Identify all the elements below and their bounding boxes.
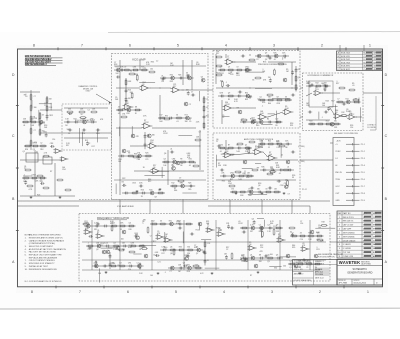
svg-text:R9: R9	[228, 99, 230, 101]
svg-text:P1-5: P1-5	[361, 172, 365, 174]
svg-text:CR12: CR12	[350, 114, 355, 116]
svg-text:6: 6	[339, 236, 340, 238]
svg-text:330: 330	[218, 165, 221, 167]
svg-text:2: 2	[339, 221, 340, 223]
svg-text:11: 11	[338, 256, 340, 258]
svg-text:R26: R26	[189, 158, 192, 160]
svg-text:CR8: CR8	[306, 105, 310, 107]
svg-text:R7: R7	[86, 229, 88, 231]
svg-text:R17: R17	[23, 181, 26, 183]
svg-text:R12: R12	[85, 140, 88, 142]
svg-text:330: 330	[34, 107, 37, 109]
svg-text:C2: C2	[222, 117, 224, 119]
svg-text:C9: C9	[199, 132, 201, 134]
svg-text:R35: R35	[222, 181, 225, 183]
svg-text:C2: C2	[156, 61, 158, 63]
svg-text:CR8: CR8	[259, 140, 262, 142]
svg-text:33: 33	[196, 246, 198, 248]
svg-text:R12: R12	[341, 112, 344, 114]
svg-text:REPLACE AND RECALIBRATE: REPLACE AND RECALIBRATE	[29, 256, 58, 259]
svg-text:C7: C7	[206, 99, 208, 101]
svg-text:CR8: CR8	[50, 143, 53, 145]
svg-text:33: 33	[160, 220, 162, 222]
svg-text:5: 5	[175, 290, 177, 294]
svg-text:UNLESS OTHERWISE SPECIFIED:: UNLESS OTHERWISE SPECIFIED:	[29, 235, 62, 237]
svg-text:C9: C9	[287, 193, 289, 195]
svg-text:C7: C7	[34, 96, 36, 98]
svg-text:CR1: CR1	[315, 89, 319, 91]
svg-text:R35: R35	[242, 261, 245, 263]
svg-text:RESISTORS ARE IN OHMS 1/4W 5%: RESISTORS ARE IN OHMS 1/4W 5%	[29, 236, 63, 239]
svg-text:R22: R22	[236, 73, 239, 75]
svg-text:P2-4: P2-4	[361, 165, 365, 167]
svg-text:R26: R26	[187, 271, 190, 273]
svg-text:Q3: Q3	[267, 261, 269, 263]
svg-text:8: 8	[339, 244, 340, 246]
svg-text:R17: R17	[66, 145, 69, 147]
svg-text:.XXX ± .005: .XXX ± .005	[294, 269, 303, 271]
svg-text:Q9: Q9	[242, 173, 244, 175]
svg-text:C7: C7	[207, 226, 209, 228]
svg-text:R26: R26	[273, 52, 276, 54]
svg-text:R7: R7	[256, 59, 258, 61]
svg-text:R44: R44	[174, 190, 177, 192]
svg-text:R17: R17	[216, 53, 219, 55]
svg-text:Q1: Q1	[196, 253, 198, 255]
svg-text:10.: 10.	[25, 269, 28, 271]
svg-text:R35: R35	[170, 74, 173, 76]
svg-text:R17: R17	[185, 114, 188, 116]
svg-text:.01: .01	[189, 165, 191, 167]
svg-text:330: 330	[334, 120, 337, 122]
svg-text:Q3: Q3	[113, 242, 115, 244]
svg-text:R17: R17	[259, 231, 262, 233]
svg-text:4FT-7WB: 4FT-7WB	[339, 283, 348, 285]
svg-text:R44: R44	[159, 121, 162, 123]
svg-text:CR8: CR8	[172, 158, 175, 160]
svg-text:Q9: Q9	[228, 92, 230, 94]
svg-text:CR8: CR8	[131, 242, 134, 244]
svg-text:R31: R31	[230, 179, 233, 181]
svg-text:XSTR 2N3904: XSTR 2N3904	[343, 233, 355, 235]
svg-text:R18: R18	[246, 177, 249, 179]
svg-text:ECN 2703: ECN 2703	[341, 62, 350, 64]
svg-text:Q3: Q3	[257, 99, 259, 101]
svg-text:R31: R31	[40, 181, 43, 183]
svg-text:Q9: Q9	[276, 96, 278, 98]
svg-text:.01: .01	[278, 173, 280, 175]
svg-text:100: 100	[318, 227, 321, 229]
svg-text:R22: R22	[255, 148, 258, 150]
svg-text:R44: R44	[248, 195, 251, 197]
svg-text:C2: C2	[158, 189, 160, 191]
svg-text:CR8: CR8	[219, 92, 222, 94]
svg-text:5: 5	[363, 236, 364, 238]
svg-text:3: 3	[273, 44, 275, 48]
svg-text:CLOSURE: CLOSURE	[367, 127, 376, 129]
svg-text:C14: C14	[350, 127, 353, 129]
svg-text:R40: R40	[149, 189, 152, 191]
svg-text:R18: R18	[40, 149, 43, 151]
svg-text:4: 4	[363, 244, 364, 246]
svg-text:ECN 2891: ECN 2891	[341, 66, 350, 68]
svg-text:Q3: Q3	[195, 264, 197, 266]
svg-text:Q9: Q9	[298, 77, 300, 79]
svg-text:C2: C2	[87, 110, 89, 112]
svg-text:1/0: 1/0	[374, 66, 377, 68]
svg-text:2: 2	[321, 44, 323, 48]
svg-text:MODEL NO: MODEL NO	[339, 280, 347, 282]
svg-text:5: 5	[177, 44, 179, 48]
svg-text:.1: .1	[262, 105, 264, 107]
svg-text:8: 8	[363, 221, 364, 223]
svg-text:Q6: Q6	[129, 222, 131, 224]
svg-text:CR12: CR12	[152, 241, 157, 243]
svg-text:Q3: Q3	[119, 262, 121, 264]
svg-text:R4: R4	[180, 165, 182, 167]
svg-text:R22: R22	[122, 178, 125, 180]
svg-text:FACTORY SET SELECTIONS: FACTORY SET SELECTIONS	[29, 251, 57, 254]
svg-text:R12: R12	[171, 182, 174, 184]
svg-text:C21: C21	[289, 260, 292, 262]
svg-text:R26: R26	[145, 152, 148, 154]
svg-text:CR4: CR4	[219, 144, 222, 146]
svg-text:.01: .01	[118, 106, 120, 108]
svg-text:R31: R31	[141, 66, 144, 68]
svg-text:100: 100	[269, 154, 272, 156]
svg-text:DIODE 1N4148: DIODE 1N4148	[343, 240, 355, 242]
svg-text:7: 7	[363, 233, 364, 235]
svg-text:P1-9: P1-9	[361, 200, 365, 202]
svg-text:5/8: 5/8	[374, 53, 377, 55]
svg-text:R26: R26	[242, 254, 245, 256]
svg-text:.1: .1	[282, 59, 283, 61]
svg-text:CR1: CR1	[276, 231, 279, 233]
svg-text:C14: C14	[245, 151, 248, 153]
svg-text:33: 33	[300, 232, 302, 234]
svg-text:WΛVETEK: WΛVETEK	[339, 260, 360, 265]
svg-text:330: 330	[257, 188, 260, 190]
svg-text:R4: R4	[130, 71, 132, 73]
svg-text:P1-1: P1-1	[361, 144, 365, 146]
svg-text:R17: R17	[250, 231, 253, 233]
svg-text:R22: R22	[74, 118, 77, 120]
svg-text:C7: C7	[191, 92, 193, 94]
svg-text:100: 100	[283, 265, 286, 267]
svg-text:OTHERWISE SPECIFIED: OTHERWISE SPECIFIED	[294, 263, 313, 265]
svg-text:CR12: CR12	[32, 174, 36, 176]
svg-text:Q1: Q1	[259, 96, 261, 98]
svg-text:CR8: CR8	[137, 159, 140, 161]
svg-text:P2-6: P2-6	[361, 179, 365, 181]
svg-text:C14: C14	[260, 247, 263, 249]
svg-text:C14: C14	[317, 239, 320, 241]
svg-text:ONLY: ONLY	[86, 91, 92, 93]
svg-text:R7: R7	[250, 275, 252, 277]
svg-text:ECN 2411: ECN 2411	[341, 56, 350, 58]
svg-text:R35: R35	[188, 189, 191, 191]
svg-text:R31: R31	[187, 264, 190, 266]
svg-text:POT 10K: POT 10K	[343, 252, 351, 254]
svg-text:33: 33	[285, 96, 287, 98]
svg-text:.1: .1	[88, 233, 89, 235]
svg-text:(CONN): (CONN)	[298, 161, 305, 163]
svg-text:4: 4	[223, 290, 225, 294]
svg-text:R35: R35	[151, 61, 154, 63]
svg-text:7: 7	[81, 44, 83, 48]
svg-text:GCV: GCV	[335, 186, 340, 188]
svg-text:C9: C9	[179, 178, 181, 180]
svg-text:Q6: Q6	[170, 253, 172, 255]
svg-text:CR12: CR12	[230, 172, 234, 174]
svg-text:330: 330	[152, 135, 155, 137]
svg-text:CR12: CR12	[144, 122, 149, 124]
svg-text:R22: R22	[278, 236, 281, 238]
svg-text:GENERATOR BOARD: GENERATOR BOARD	[347, 272, 372, 275]
svg-text:R17: R17	[331, 100, 334, 102]
svg-text:REPLACE ONLY WITH SAME TYPE: REPLACE ONLY WITH SAME TYPE	[29, 254, 62, 257]
svg-text:6/9: 6/9	[374, 62, 377, 64]
svg-text:CIRCUIT PATENT PENDING: CIRCUIT PATENT PENDING	[29, 259, 55, 262]
svg-text:C14: C14	[128, 269, 131, 271]
svg-text:R12: R12	[326, 120, 329, 122]
svg-text:2: 2	[363, 248, 364, 250]
svg-text:Q6: Q6	[249, 244, 251, 246]
svg-text:R31: R31	[206, 116, 209, 118]
svg-text:CR1: CR1	[126, 106, 129, 108]
svg-text:.1: .1	[164, 272, 166, 274]
svg-text:Q6: Q6	[267, 254, 269, 256]
svg-text:100: 100	[150, 275, 153, 277]
svg-text:R44: R44	[326, 101, 329, 103]
svg-text:P1-7: P1-7	[361, 186, 365, 188]
svg-text:.01: .01	[176, 121, 178, 123]
svg-text:R17: R17	[336, 83, 339, 85]
svg-text:(COMPENSATION TYPICAL): (COMPENSATION TYPICAL)	[29, 242, 56, 245]
svg-text:R9: R9	[275, 125, 277, 127]
svg-text:100: 100	[116, 73, 119, 75]
svg-text:100: 100	[268, 96, 271, 98]
svg-text:R17: R17	[116, 66, 119, 68]
svg-text:R44: R44	[270, 223, 273, 225]
svg-text:R9: R9	[257, 168, 259, 170]
svg-text:R31: R31	[165, 116, 168, 118]
svg-text:.01: .01	[170, 149, 172, 151]
svg-text:C14: C14	[300, 223, 303, 225]
svg-text:9: 9	[339, 248, 340, 250]
svg-text:R12: R12	[196, 230, 199, 232]
svg-text:0005-00-2002: 0005-00-2002	[354, 283, 367, 285]
svg-text:R9: R9	[180, 158, 182, 160]
svg-text:Q3: Q3	[163, 158, 165, 160]
svg-text:R35: R35	[245, 99, 248, 101]
svg-text:R35: R35	[245, 92, 248, 94]
svg-text:R22: R22	[307, 82, 310, 84]
svg-text:.01: .01	[118, 113, 120, 115]
svg-text:C14: C14	[52, 139, 55, 141]
svg-text:33: 33	[120, 229, 122, 231]
svg-text:RES 4.7K 5%: RES 4.7K 5%	[343, 217, 354, 219]
svg-text:3: 3	[363, 252, 364, 254]
svg-text:8: 8	[31, 290, 33, 294]
svg-text:CR12: CR12	[163, 133, 168, 135]
svg-text:.01: .01	[23, 125, 25, 127]
svg-text:N.O. FOR EXPLANATION OF SYMBOL: N.O. FOR EXPLANATION OF SYMBOLS	[25, 280, 63, 283]
svg-text:C21: C21	[270, 166, 273, 168]
svg-text:Q9: Q9	[285, 180, 287, 182]
svg-text:CR8: CR8	[354, 98, 357, 100]
svg-text:R26: R26	[25, 149, 28, 151]
svg-text:CHECK R.M.: CHECK R.M.	[315, 264, 325, 266]
svg-text:100: 100	[42, 131, 45, 133]
svg-text:.01: .01	[206, 107, 208, 109]
svg-text:C7: C7	[337, 98, 339, 100]
svg-text:1: 1	[339, 217, 340, 219]
svg-text:C7: C7	[24, 168, 26, 170]
svg-text:C2: C2	[68, 133, 70, 135]
svg-text:C9: C9	[124, 66, 126, 68]
svg-text:R35: R35	[292, 247, 295, 249]
svg-text:R9: R9	[298, 69, 300, 71]
svg-text:RES 10K 5%: RES 10K 5%	[343, 221, 354, 223]
svg-text:100: 100	[228, 73, 231, 75]
svg-text:33: 33	[292, 177, 294, 179]
svg-text:5: 5	[339, 233, 340, 235]
svg-text:R35: R35	[179, 246, 182, 248]
svg-text:R18: R18	[322, 222, 325, 224]
svg-text:FREQUENCY MODULATOR: FREQUENCY MODULATOR	[97, 217, 129, 220]
svg-text:R4: R4	[267, 118, 269, 120]
svg-text:CR1: CR1	[226, 223, 229, 225]
svg-text:330: 330	[187, 246, 190, 248]
svg-text:.1: .1	[88, 242, 89, 244]
svg-text:PROJ ENG: PROJ ENG	[315, 274, 324, 276]
svg-text:C2: C2	[259, 224, 261, 226]
svg-text:33: 33	[265, 188, 267, 190]
svg-text:R4: R4	[122, 182, 124, 184]
svg-text:Q3: Q3	[183, 262, 185, 264]
svg-text:R17: R17	[92, 146, 95, 148]
svg-text:XSTR 2N3906: XSTR 2N3906	[343, 236, 355, 238]
svg-text:SYNC: SYNC	[335, 151, 341, 153]
svg-text:Q3: Q3	[96, 249, 98, 251]
svg-text:.1: .1	[142, 223, 144, 225]
svg-text:1: 1	[367, 290, 369, 294]
svg-text:R7: R7	[97, 232, 99, 234]
svg-text:VCG AMP: VCG AMP	[132, 58, 146, 62]
svg-text:R17: R17	[173, 86, 176, 88]
svg-text:.01: .01	[161, 76, 163, 78]
svg-text:C14: C14	[300, 239, 303, 241]
svg-text:R40: R40	[268, 103, 271, 105]
svg-text:R18: R18	[86, 222, 89, 224]
svg-text:R35: R35	[135, 74, 138, 76]
svg-text:.1: .1	[23, 174, 24, 176]
svg-text:Q9: Q9	[276, 224, 278, 226]
svg-text:Q6: Q6	[164, 153, 166, 155]
svg-text:CAPACITORS ARE IN MICROFARADS: CAPACITORS ARE IN MICROFARADS	[29, 239, 65, 242]
svg-text:Q9: Q9	[142, 84, 144, 86]
svg-text:R12: R12	[94, 229, 97, 231]
svg-text:.01: .01	[287, 166, 289, 168]
svg-text:Q6: Q6	[153, 167, 155, 169]
svg-text:CR12: CR12	[238, 223, 243, 225]
svg-text:CR4: CR4	[111, 222, 114, 224]
svg-text:C7: C7	[216, 141, 218, 143]
svg-text:8: 8	[33, 44, 35, 48]
svg-text:C7: C7	[170, 271, 172, 273]
svg-text:ECN 3022: ECN 3022	[341, 69, 350, 71]
svg-text:4: 4	[339, 229, 340, 231]
svg-text:4/0: 4/0	[374, 69, 377, 71]
svg-text:C21: C21	[145, 159, 148, 161]
svg-text:3: 3	[271, 290, 273, 294]
svg-text:10: 10	[338, 252, 340, 254]
svg-text:CONN 9 PIN: CONN 9 PIN	[343, 256, 354, 258]
svg-text:C21: C21	[276, 140, 279, 142]
svg-text:CR4: CR4	[228, 183, 232, 185]
svg-text:R7: R7	[228, 144, 230, 146]
svg-text:C14: C14	[153, 255, 156, 257]
svg-text:CR12: CR12	[225, 104, 230, 106]
svg-text:Q1: Q1	[23, 151, 25, 153]
svg-text:.1: .1	[225, 82, 226, 84]
svg-text:Q9: Q9	[33, 149, 35, 151]
svg-text:CR1: CR1	[122, 114, 125, 116]
svg-text:.1: .1	[285, 101, 287, 103]
svg-text:R7: R7	[50, 171, 52, 173]
svg-text:C2: C2	[40, 142, 42, 144]
svg-text:.01: .01	[120, 159, 122, 161]
svg-text:1: 1	[369, 44, 371, 48]
svg-text:6: 6	[127, 290, 129, 294]
svg-text:DO NOT SCALE DWG: DO NOT SCALE DWG	[294, 279, 312, 282]
svg-text:Q1: Q1	[289, 267, 291, 269]
svg-text:CR12: CR12	[245, 66, 249, 68]
svg-text:C9: C9	[306, 267, 308, 269]
svg-text:CR8: CR8	[258, 118, 261, 120]
svg-text:C9: C9	[228, 66, 230, 68]
svg-text:2/9: 2/9	[374, 59, 377, 61]
svg-text:.01: .01	[352, 85, 355, 87]
svg-text:R9: R9	[237, 107, 239, 109]
svg-text:R22: R22	[268, 140, 271, 142]
svg-text:REFERENCE DESIGNATIONS: REFERENCE DESIGNATIONS	[29, 268, 58, 271]
svg-text:C14: C14	[105, 242, 108, 244]
svg-text:R9: R9	[128, 152, 130, 154]
svg-text:7: 7	[339, 240, 340, 242]
svg-text:P1-2: P1-2	[361, 151, 365, 153]
svg-text:R22: R22	[316, 82, 319, 84]
svg-text:Q1: Q1	[38, 125, 40, 127]
svg-text:100: 100	[317, 232, 320, 234]
svg-text:330: 330	[68, 109, 71, 111]
svg-text:INSTALLED AT TEST: INSTALLED AT TEST	[29, 265, 49, 268]
svg-text:+5: +5	[335, 144, 337, 146]
svg-text:R12: R12	[148, 181, 151, 183]
svg-text:6: 6	[129, 44, 131, 48]
svg-text:C7: C7	[150, 235, 152, 237]
svg-text:R12: R12	[187, 74, 190, 76]
svg-text:R35: R35	[261, 166, 264, 168]
svg-text:C2: C2	[241, 118, 243, 120]
svg-text:R4: R4	[24, 94, 26, 96]
svg-text:P2-3: P2-3	[361, 158, 365, 160]
svg-text:CR8: CR8	[223, 165, 227, 167]
svg-text:R35: R35	[170, 81, 173, 83]
svg-text:R4: R4	[65, 125, 67, 127]
svg-text:.01: .01	[273, 59, 275, 61]
